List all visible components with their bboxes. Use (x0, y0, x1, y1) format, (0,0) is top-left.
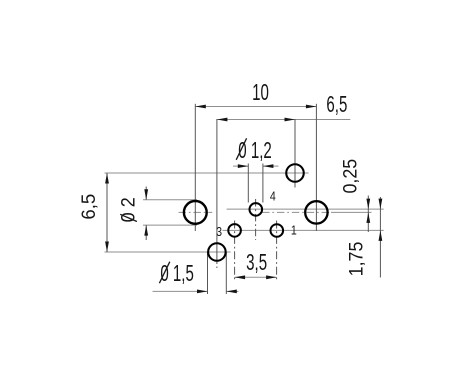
svg-text:6,5: 6,5 (326, 92, 347, 118)
svg-text:0,25: 0,25 (339, 159, 361, 194)
svg-text:0 2: 0 2 (117, 197, 139, 222)
svg-text:0 1,2: 0 1,2 (238, 138, 272, 164)
svg-text:0 1,5: 0 1,5 (160, 261, 194, 287)
svg-text:3: 3 (216, 225, 222, 239)
svg-text:1,75: 1,75 (345, 242, 367, 277)
svg-text:1: 1 (291, 224, 297, 238)
svg-text:4: 4 (270, 190, 276, 204)
svg-text:3,5: 3,5 (246, 250, 267, 276)
svg-text:10: 10 (252, 80, 269, 106)
svg-text:6,5: 6,5 (78, 194, 99, 220)
